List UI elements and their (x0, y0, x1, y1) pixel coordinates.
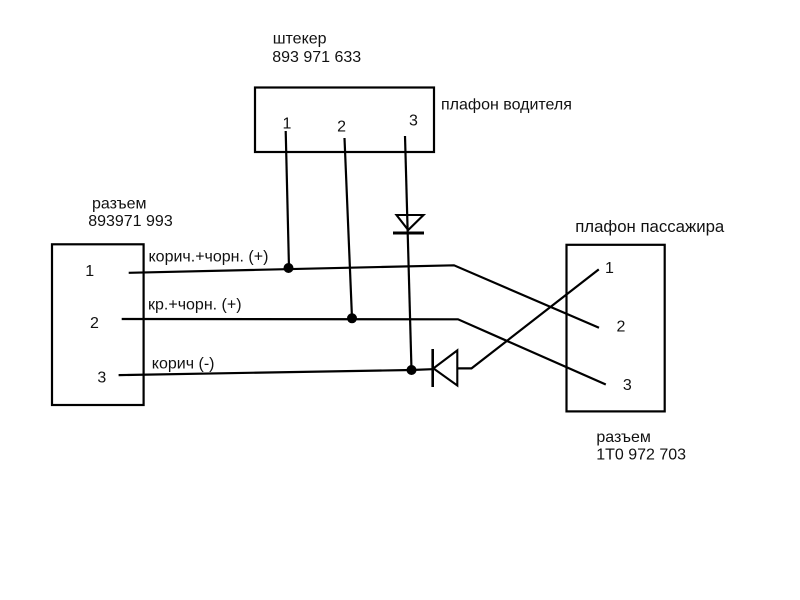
svg-text:1: 1 (282, 116, 291, 133)
svg-text:3: 3 (97, 369, 106, 386)
wire X1 pin2 to X2 pin3 (122, 319, 606, 385)
svg-text:2: 2 (337, 119, 346, 136)
wire diode D2 to X2 pin1 (457, 269, 599, 368)
wire X1 pin3 to node C (119, 370, 412, 375)
svg-text:кр.+чорн. (+): кр.+чорн. (+) (148, 297, 242, 314)
svg-text:1Т0 972 703: 1Т0 972 703 (596, 446, 686, 463)
svg-text:плафон пассажира: плафон пассажира (575, 217, 725, 236)
svg-text:893 971 633: 893 971 633 (272, 49, 361, 66)
diode D2 (433, 349, 458, 387)
svg-text:3: 3 (409, 113, 418, 130)
svg-text:2: 2 (616, 318, 625, 335)
svg-text:893971 993: 893971 993 (88, 213, 173, 230)
svg-text:разъем: разъем (92, 196, 147, 213)
wire U1 pin3 through diode D1 to node C (405, 136, 412, 370)
diode D1 (393, 215, 424, 233)
svg-text:2: 2 (90, 315, 99, 332)
wire U1 pin2 to node B (345, 138, 353, 318)
connector X1 разъем box (52, 244, 144, 405)
node C junction (407, 365, 417, 375)
svg-text:3: 3 (623, 377, 632, 394)
wire U1 pin1 to node A (286, 131, 289, 268)
svg-text:штекер: штекер (273, 31, 327, 48)
svg-text:корич (-): корич (-) (152, 355, 215, 372)
svg-text:1: 1 (605, 260, 614, 277)
svg-text:разъем: разъем (596, 429, 651, 446)
node B junction (347, 313, 357, 323)
wire node C to diode D2 (412, 368, 433, 371)
svg-text:плафон водителя: плафон водителя (441, 97, 572, 114)
wire X1 pin1 to X2 pin2 (129, 265, 599, 328)
connector U1 штекер box (255, 88, 434, 153)
svg-text:корич.+чорн. (+): корич.+чорн. (+) (149, 248, 269, 265)
svg-text:1: 1 (85, 263, 94, 280)
node A junction (284, 263, 294, 273)
connector X2 плафон пассажира box (567, 245, 665, 412)
